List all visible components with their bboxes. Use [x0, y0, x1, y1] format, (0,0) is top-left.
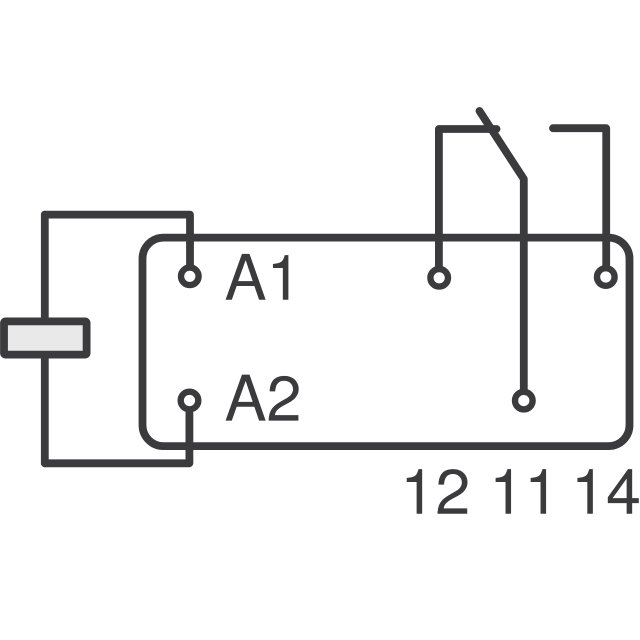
label A2 [226, 375, 299, 421]
label A1 [226, 254, 289, 300]
wire coil left vertical [41, 215, 49, 464]
wire movable contact blade to terminal 11 [480, 111, 524, 389]
terminal A2 [181, 392, 199, 410]
label 11 [496, 469, 546, 514]
relay body K1 [143, 238, 630, 447]
terminal 12 [430, 269, 448, 287]
wire NO fixed contact to terminal 14 [553, 128, 606, 265]
terminal 14 [597, 268, 615, 286]
label 12 [407, 469, 468, 514]
label 14 [577, 469, 638, 514]
terminal 11 [515, 392, 533, 410]
coil L1 [4, 321, 87, 354]
wire coil top feed to A1 [45, 215, 190, 265]
wire terminal 12 riser and NC fixed contact [439, 129, 497, 266]
terminal A1 [181, 268, 199, 286]
wire coil bottom feed to A2 [45, 413, 190, 463]
